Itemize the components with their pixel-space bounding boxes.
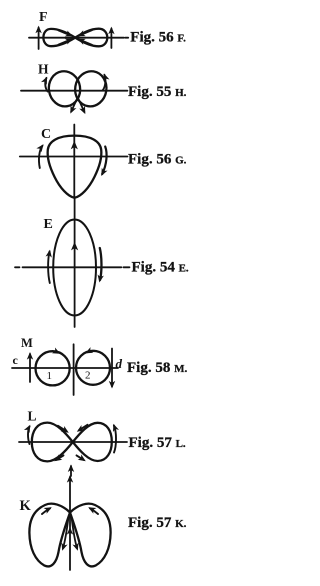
left rotation arrow H <box>41 75 50 91</box>
svg-text:Fig. 58 M.: Fig. 58 M. <box>127 360 187 376</box>
svg-text:c: c <box>13 353 19 367</box>
svg-text:F: F <box>39 10 48 25</box>
up arrowhead on C axis <box>71 141 78 150</box>
left rotation arrow E <box>46 249 54 283</box>
circle 2 M <box>76 351 110 385</box>
right petal K <box>70 504 111 567</box>
svg-text:Fig. 56 F.: Fig. 56 F. <box>130 30 186 46</box>
arrow dart top-left inward L <box>58 426 71 436</box>
vertical axis line K with top arrow <box>67 475 73 570</box>
inner left diverging arrow K <box>59 517 68 552</box>
right rotation arrow H <box>101 72 110 90</box>
inner right diverging arrow K <box>72 517 81 552</box>
arrow dart on circle 1 (clockwise, top) <box>50 347 62 356</box>
right rotation arrow E <box>96 248 104 283</box>
pick-shaped curve C <box>48 136 102 198</box>
svg-text:1: 1 <box>47 370 53 382</box>
horizontal axis line H <box>21 90 127 92</box>
svg-text:M: M <box>21 336 33 350</box>
left vertical arrow F <box>35 26 41 49</box>
up arrowhead on center line K <box>67 527 73 535</box>
vertical axis line E <box>74 198 76 327</box>
left loop H <box>46 69 82 109</box>
arrow dart on F top-left diagonal <box>59 30 75 39</box>
arrow dart on right petal top K <box>87 504 98 514</box>
right loop H <box>73 69 109 109</box>
right rotation arrow L <box>110 423 119 453</box>
arrow dart top-right inward L <box>75 425 87 435</box>
svg-text:Fig. 54 E.: Fig. 54 E. <box>132 260 189 276</box>
svg-text:H: H <box>38 62 49 77</box>
ellipse E <box>53 220 96 316</box>
dash before label F <box>125 37 128 39</box>
horizontal axis line M <box>12 367 118 369</box>
central vertical line M <box>73 344 75 395</box>
arrow dart bottom-right outward L <box>77 454 88 464</box>
svg-text:Fig. 57 K.: Fig. 57 K. <box>128 515 187 531</box>
svg-text:L: L <box>28 409 37 424</box>
svg-text:2: 2 <box>85 370 91 382</box>
arrow dart on left petal top K <box>42 504 53 514</box>
arrow dart bottom-left outward L <box>52 454 63 464</box>
horizontal axis line C <box>20 156 128 158</box>
left rotation arrow C <box>36 142 46 168</box>
svg-text:Fig. 56 G.: Fig. 56 G. <box>128 152 187 168</box>
right rotation arrow C <box>98 147 107 178</box>
vertical axis line C (continues to figure E) <box>73 125 75 199</box>
up arrowhead on E axis <box>71 242 78 251</box>
small up arrow below center L <box>68 464 74 476</box>
arrow dart on F top-right diagonal <box>76 30 92 39</box>
arrow dart on F bottom-right diagonal <box>76 36 92 45</box>
svg-text:K: K <box>20 498 32 514</box>
arrow dart on F bottom-left diagonal <box>59 36 75 45</box>
right down arrow at d <box>109 349 115 389</box>
circle 1 M <box>36 351 70 385</box>
arrow dart on circle 2 (counter-clockwise, top) <box>84 347 96 356</box>
right vertical arrow F <box>108 27 114 48</box>
horizontal axis line E <box>15 266 130 268</box>
svg-text:C: C <box>41 127 51 142</box>
left rotation arrow L <box>24 423 33 444</box>
bottom-left exit arrow H <box>67 99 77 115</box>
svg-text:E: E <box>44 217 53 232</box>
horizontal axis line L <box>19 441 127 443</box>
left up arrow at c <box>27 352 33 382</box>
figure-eight curve L <box>32 423 112 462</box>
horizontal axis line F <box>29 37 124 39</box>
left petal K <box>29 504 70 567</box>
svg-text:Fig. 57 L.: Fig. 57 L. <box>129 435 186 451</box>
figure-eight curve F <box>43 29 107 47</box>
bottom-right exit arrow H <box>78 99 88 116</box>
svg-text:Fig. 55 H.: Fig. 55 H. <box>128 84 187 100</box>
